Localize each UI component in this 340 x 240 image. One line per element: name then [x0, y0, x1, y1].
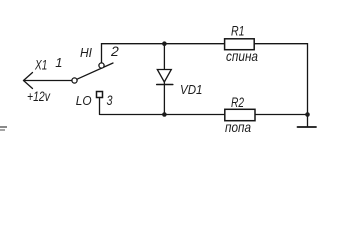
svg-text:попа: попа — [225, 119, 251, 135]
svg-text:X1: X1 — [34, 57, 47, 73]
svg-text:LO: LO — [76, 93, 92, 108]
svg-text:R2: R2 — [231, 94, 244, 110]
svg-text:спина: спина — [226, 48, 258, 64]
svg-text:HI: HI — [80, 45, 92, 60]
svg-text:3: 3 — [107, 92, 113, 108]
svg-text:VD1: VD1 — [180, 83, 203, 97]
svg-text:1: 1 — [55, 55, 62, 70]
svg-text:2: 2 — [110, 43, 119, 59]
svg-text:+12v: +12v — [27, 89, 51, 104]
svg-text:R1: R1 — [231, 23, 245, 39]
